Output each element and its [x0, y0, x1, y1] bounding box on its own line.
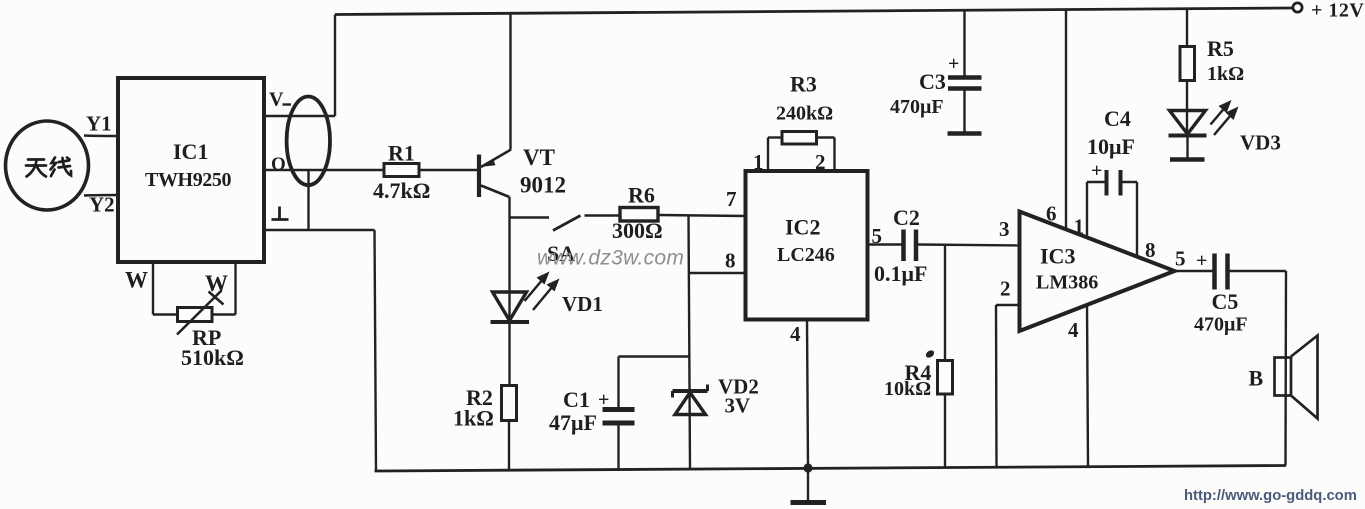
- svg-text:R3: R3: [790, 72, 817, 97]
- svg-text:C2: C2: [893, 205, 920, 230]
- svg-text:10kΩ: 10kΩ: [884, 378, 931, 400]
- svg-text:470μF: 470μF: [1194, 314, 1248, 336]
- svg-text:C3: C3: [919, 69, 946, 94]
- svg-text:W: W: [205, 271, 228, 296]
- svg-text:8: 8: [725, 249, 736, 273]
- svg-text:IC2: IC2: [785, 215, 820, 240]
- svg-text:http://www.go-gddq.com: http://www.go-gddq.com: [1184, 488, 1357, 504]
- svg-text:TWH9250: TWH9250: [145, 169, 231, 191]
- svg-text:R6: R6: [628, 183, 655, 208]
- svg-text:0.1μF: 0.1μF: [874, 261, 927, 286]
- svg-text:9012: 9012: [520, 173, 566, 198]
- svg-text:47μF: 47μF: [549, 410, 597, 435]
- svg-text:4.7kΩ: 4.7kΩ: [373, 178, 430, 203]
- svg-text:5: 5: [872, 224, 883, 248]
- svg-text:1kΩ: 1kΩ: [1207, 63, 1244, 85]
- svg-text:W: W: [125, 268, 148, 293]
- svg-text:4: 4: [790, 322, 801, 346]
- svg-text:7: 7: [726, 187, 737, 211]
- svg-text:2: 2: [1000, 277, 1011, 301]
- svg-text:Y1: Y1: [86, 112, 112, 136]
- svg-text:V: V: [269, 89, 284, 111]
- svg-text:LC246: LC246: [777, 244, 835, 266]
- svg-text:240kΩ: 240kΩ: [776, 103, 833, 125]
- svg-text:+ 12V: + 12V: [1311, 0, 1364, 22]
- svg-text:470μF: 470μF: [890, 96, 944, 118]
- svg-text:1: 1: [1074, 215, 1085, 239]
- svg-text:1: 1: [753, 150, 764, 174]
- svg-text:+: +: [1196, 250, 1207, 272]
- svg-text:IC1: IC1: [173, 139, 208, 164]
- svg-text:LM386: LM386: [1036, 272, 1098, 294]
- svg-text:www.dz3w.com: www.dz3w.com: [537, 247, 684, 270]
- svg-text:C4: C4: [1104, 106, 1131, 131]
- svg-text:8: 8: [1145, 238, 1156, 262]
- svg-text:C5: C5: [1212, 289, 1239, 314]
- svg-text:2: 2: [815, 150, 826, 174]
- svg-text:6: 6: [1046, 202, 1057, 226]
- svg-text:B: B: [1249, 366, 1264, 391]
- svg-text:R1: R1: [388, 141, 415, 166]
- svg-text:300Ω: 300Ω: [612, 218, 663, 243]
- svg-text:VT: VT: [523, 145, 555, 170]
- svg-text:5: 5: [1175, 247, 1186, 271]
- svg-text:+: +: [1091, 160, 1102, 182]
- svg-text:4: 4: [1068, 318, 1079, 342]
- svg-text:1kΩ: 1kΩ: [453, 406, 494, 431]
- svg-text:VD3: VD3: [1240, 131, 1281, 155]
- svg-text:VD1: VD1: [562, 292, 603, 316]
- svg-text:Y2: Y2: [89, 193, 115, 217]
- svg-text:C1: C1: [563, 387, 590, 412]
- svg-text:O: O: [271, 154, 286, 175]
- svg-text:R5: R5: [1207, 36, 1234, 61]
- svg-text:510kΩ: 510kΩ: [181, 345, 244, 370]
- svg-text:3: 3: [999, 217, 1010, 241]
- svg-text:10μF: 10μF: [1087, 134, 1135, 159]
- svg-text:+: +: [598, 389, 609, 411]
- svg-text:+: +: [948, 53, 959, 75]
- svg-text:3V: 3V: [725, 394, 751, 418]
- svg-text:IC3: IC3: [1040, 244, 1075, 269]
